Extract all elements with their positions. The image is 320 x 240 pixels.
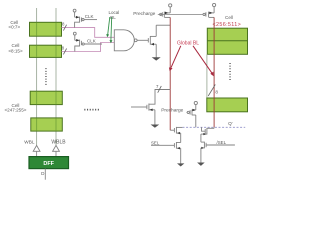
nmos M3 middle pulldown — [131, 104, 155, 126]
wire local BL B from cell 8:15 — [62, 43, 115, 52]
svg-text:Q′: Q′ — [228, 121, 233, 126]
global BL right vertical — [213, 17, 215, 127]
wire WBLB vertical bitline — [55, 8, 57, 145]
DFF block — [29, 157, 69, 169]
svg-text:Cell: Cell — [12, 43, 20, 48]
nmos T4 read stack right bottom — [201, 142, 235, 163]
nmos M1 global BL pulldown — [148, 25, 170, 57]
svg-text:DFF: DFF — [43, 161, 54, 167]
row ellipsis dots middle — [84, 109, 99, 111]
cell block <247:255> — [31, 118, 63, 131]
cell block unlabeled — [30, 91, 62, 104]
wire D input stub — [44, 169, 46, 180]
bus slash 8 on wire A — [63, 25, 66, 31]
global BL left vertical — [169, 17, 171, 130]
bus slash 7 — [158, 86, 162, 93]
svg-text:Precharge: Precharge — [161, 108, 183, 114]
pmos Q1 clk pass top — [73, 9, 97, 27]
bus slash 8 on wire B — [63, 49, 66, 55]
svg-text:Precharge: Precharge — [133, 11, 155, 17]
bus tap wire 7 to global BL — [149, 90, 170, 105]
column ellipsis dots left bank — [45, 68, 47, 84]
svg-text:SEL: SEL — [151, 140, 160, 145]
wire Q' to T3 gate — [202, 127, 206, 131]
nand gate U1 — [114, 30, 148, 51]
ground G2 — [151, 125, 160, 128]
wire WBL vertical bitline — [36, 8, 38, 145]
wire global BL left to T1 gate — [170, 129, 174, 131]
svg-text:<247:255>: <247:255> — [5, 108, 27, 113]
svg-text:8: 8 — [215, 89, 218, 94]
write buffer triangle WBL — [33, 145, 40, 151]
ground G3 — [177, 163, 184, 166]
nmos T3 read stack right top — [201, 127, 214, 142]
bus slash 8 on right global BL — [208, 85, 215, 97]
wire SEL — [151, 144, 174, 146]
pmos P3 precharge Q' — [187, 101, 198, 127]
svg-text:<8:15>: <8:15> — [8, 48, 23, 53]
right bank lower cell block — [207, 98, 248, 112]
svg-text:CLK: CLK — [87, 38, 96, 43]
pmos P1 precharge left — [160, 4, 172, 18]
svg-text:<0:7>: <0:7> — [8, 25, 20, 30]
svg-text:<256:511>: <256:511> — [213, 22, 242, 28]
pmos Q2 clk pass bottom — [73, 32, 102, 51]
right bank connector line — [206, 54, 208, 98]
arrow global BL left — [169, 46, 181, 72]
svg-text:/SEL: /SEL — [217, 140, 227, 145]
arrow local BL 2 — [110, 17, 113, 43]
nmos T2 read stack left bottom — [174, 142, 180, 164]
wire WBL buffer to DFF — [36, 151, 38, 156]
ground G4 — [197, 163, 205, 166]
arrow local BL 1 — [106, 17, 110, 37]
node Q' dashed line — [183, 126, 246, 128]
svg-text:WBL: WBL — [24, 139, 35, 144]
write buffer triangle WBLB — [53, 145, 60, 151]
cell block <8:15> — [30, 45, 62, 57]
precharge gate wire shared — [158, 13, 203, 15]
ground G1 — [152, 57, 161, 60]
arrow global BL right — [193, 46, 214, 77]
pmos P2 precharge right — [203, 3, 216, 17]
svg-text:CLK: CLK — [85, 14, 94, 19]
wire local BL A from cell 0:7 — [62, 28, 115, 38]
wire WBLB buffer to DFF — [55, 151, 57, 156]
nmos T1 read stack left top — [174, 127, 182, 143]
svg-text:WBLB: WBLB — [51, 139, 66, 145]
right bank cell block pair — [207, 28, 247, 54]
svg-text:Cell: Cell — [225, 15, 233, 20]
cell block <0:7> — [30, 22, 62, 36]
column ellipsis dots right bank — [229, 63, 231, 80]
